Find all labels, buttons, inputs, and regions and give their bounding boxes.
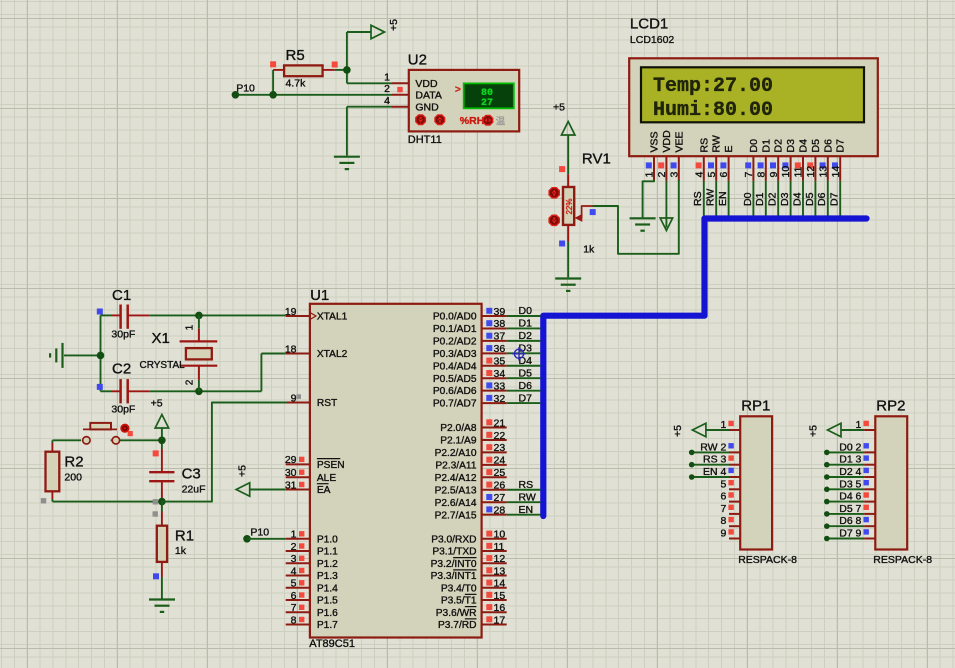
svg-text:19: 19 xyxy=(285,306,297,318)
svg-text:XTAL2: XTAL2 xyxy=(317,349,348,360)
svg-text:D3: D3 xyxy=(779,192,791,206)
svg-text:+5: +5 xyxy=(388,19,400,31)
svg-text:EA: EA xyxy=(317,485,331,496)
svg-text:6: 6 xyxy=(720,491,726,503)
svg-text:12: 12 xyxy=(805,166,817,178)
svg-text:RP1: RP1 xyxy=(741,398,770,415)
svg-text:14: 14 xyxy=(494,578,506,590)
svg-text:32: 32 xyxy=(494,393,506,405)
svg-text:2: 2 xyxy=(384,83,390,95)
svg-text:10: 10 xyxy=(780,166,792,178)
svg-text:29: 29 xyxy=(285,454,297,466)
svg-text:D3: D3 xyxy=(519,343,533,355)
svg-text:21: 21 xyxy=(494,417,506,429)
svg-text:C2: C2 xyxy=(112,361,131,378)
svg-text:11: 11 xyxy=(793,166,805,177)
svg-text:LCD1: LCD1 xyxy=(630,15,668,32)
svg-text:38: 38 xyxy=(494,318,506,330)
svg-text:28: 28 xyxy=(494,504,506,516)
svg-text:33: 33 xyxy=(494,380,506,392)
svg-text:P2.5/A13: P2.5/A13 xyxy=(435,485,477,496)
svg-text:P2.2/A10: P2.2/A10 xyxy=(435,448,477,459)
svg-text:9: 9 xyxy=(291,392,297,404)
svg-text:24: 24 xyxy=(494,455,506,467)
svg-text:+5: +5 xyxy=(553,102,565,114)
svg-text:RP2: RP2 xyxy=(876,398,905,415)
svg-text:P3.7/RD: P3.7/RD xyxy=(438,620,477,631)
svg-text:DHT11: DHT11 xyxy=(408,134,442,146)
svg-text:4: 4 xyxy=(693,172,705,178)
svg-text:P1.1: P1.1 xyxy=(317,547,338,558)
svg-text:D2: D2 xyxy=(767,192,779,206)
svg-text:P1.6: P1.6 xyxy=(317,608,338,619)
svg-text:8: 8 xyxy=(291,614,297,626)
svg-text:D2: D2 xyxy=(773,139,785,153)
svg-text:P3.3/INT1: P3.3/INT1 xyxy=(431,571,477,582)
svg-text:30pF: 30pF xyxy=(111,329,135,341)
svg-text:D7: D7 xyxy=(835,139,847,153)
svg-text:%RH: %RH xyxy=(460,115,485,127)
svg-text:P2.7/A15: P2.7/A15 xyxy=(435,510,477,521)
svg-text:15: 15 xyxy=(494,590,506,602)
svg-text:DATA: DATA xyxy=(415,90,441,102)
svg-text:P1.4: P1.4 xyxy=(317,583,338,594)
svg-text:XTAL1: XTAL1 xyxy=(317,312,348,323)
svg-text:D0: D0 xyxy=(748,139,760,153)
svg-text:P3.5/T1: P3.5/T1 xyxy=(441,596,477,607)
svg-text:X1: X1 xyxy=(152,330,170,347)
svg-text:RS: RS xyxy=(698,138,710,153)
svg-text:37: 37 xyxy=(494,331,506,343)
svg-text:R5: R5 xyxy=(286,47,305,64)
svg-text:RST: RST xyxy=(317,398,337,409)
svg-text:39: 39 xyxy=(494,306,506,318)
svg-text:GND: GND xyxy=(415,102,439,114)
svg-text:EN: EN xyxy=(519,504,534,516)
svg-text:AT89C51: AT89C51 xyxy=(309,638,355,650)
svg-text:22%: 22% xyxy=(565,198,574,214)
svg-text:2: 2 xyxy=(291,541,297,553)
svg-text:P1.7: P1.7 xyxy=(317,620,338,631)
svg-text:4.7k: 4.7k xyxy=(286,78,307,90)
svg-text:7: 7 xyxy=(720,503,726,515)
svg-text:P3.6/WR: P3.6/WR xyxy=(436,608,477,619)
svg-text:P1.0: P1.0 xyxy=(317,534,338,545)
svg-text:5: 5 xyxy=(291,578,297,590)
svg-text:E: E xyxy=(723,145,735,152)
svg-text:RESPACK-8: RESPACK-8 xyxy=(738,554,797,566)
svg-text:D4: D4 xyxy=(519,355,533,367)
svg-text:27: 27 xyxy=(481,98,493,109)
svg-text:200: 200 xyxy=(64,472,82,484)
svg-text:C1: C1 xyxy=(112,287,131,304)
svg-text:26: 26 xyxy=(494,480,506,492)
svg-text:6: 6 xyxy=(718,172,730,178)
svg-text:RW: RW xyxy=(711,135,723,152)
svg-text:P0.3/AD3: P0.3/AD3 xyxy=(433,349,477,360)
svg-text:R1: R1 xyxy=(175,528,194,545)
svg-text:P2.4/A12: P2.4/A12 xyxy=(435,473,477,484)
svg-text:27: 27 xyxy=(494,492,506,504)
svg-text:+5: +5 xyxy=(151,398,163,410)
svg-text:4: 4 xyxy=(384,95,390,107)
svg-text:RESPACK-8: RESPACK-8 xyxy=(873,554,932,566)
svg-text:3: 3 xyxy=(668,172,680,178)
svg-text:22uF: 22uF xyxy=(182,484,206,496)
svg-text:P0.7/AD7: P0.7/AD7 xyxy=(433,399,477,410)
svg-text:36: 36 xyxy=(494,343,506,355)
svg-text:4: 4 xyxy=(291,565,297,577)
svg-text:RW: RW xyxy=(519,491,536,503)
svg-text:P0.4/AD4: P0.4/AD4 xyxy=(433,361,477,372)
svg-text:P10: P10 xyxy=(236,83,255,95)
svg-text:P2.1/A9: P2.1/A9 xyxy=(440,436,477,447)
svg-text:+5: +5 xyxy=(807,425,819,437)
svg-text:1: 1 xyxy=(644,172,656,178)
svg-text:D5: D5 xyxy=(804,192,816,206)
svg-text:2: 2 xyxy=(656,172,668,178)
svg-text:13: 13 xyxy=(817,166,829,178)
svg-text:14: 14 xyxy=(830,166,842,178)
svg-text:VDD: VDD xyxy=(415,78,438,90)
svg-text:P0.6/AD6: P0.6/AD6 xyxy=(433,386,477,397)
svg-text:8: 8 xyxy=(720,515,726,527)
svg-text:D0: D0 xyxy=(742,192,754,206)
svg-text:D7: D7 xyxy=(519,392,533,404)
svg-text:12: 12 xyxy=(494,553,506,565)
svg-text:LCD1602: LCD1602 xyxy=(630,34,675,46)
svg-text:25: 25 xyxy=(494,467,506,479)
svg-text:P0.1/AD1: P0.1/AD1 xyxy=(433,324,477,335)
svg-text:温: 温 xyxy=(496,117,506,128)
svg-text:U2: U2 xyxy=(408,52,427,69)
svg-text:P2.6/A14: P2.6/A14 xyxy=(435,498,477,509)
svg-text:VEE: VEE xyxy=(673,131,685,152)
svg-text:P2.3/A11: P2.3/A11 xyxy=(435,460,476,471)
svg-text:5: 5 xyxy=(720,478,726,490)
svg-text:1: 1 xyxy=(185,324,196,330)
svg-text:D4: D4 xyxy=(798,139,810,153)
svg-text:35: 35 xyxy=(494,356,506,368)
svg-text:D0: D0 xyxy=(519,305,533,317)
svg-text:P3.4/T0: P3.4/T0 xyxy=(441,583,477,594)
svg-text:C3: C3 xyxy=(182,466,201,483)
svg-text:EN: EN xyxy=(717,191,729,206)
svg-text:D1: D1 xyxy=(519,318,533,330)
svg-text:RW: RW xyxy=(705,189,717,206)
svg-text:P2.0/A8: P2.0/A8 xyxy=(440,423,477,434)
svg-text:D4: D4 xyxy=(791,192,803,206)
svg-text:3: 3 xyxy=(291,553,297,565)
svg-text:VSS: VSS xyxy=(649,131,661,152)
svg-text:P1.5: P1.5 xyxy=(317,596,338,607)
svg-text:P0.2/AD2: P0.2/AD2 xyxy=(433,336,477,347)
svg-text:P0.0/AD0: P0.0/AD0 xyxy=(433,312,477,323)
svg-text:VDD: VDD xyxy=(661,130,673,153)
svg-text:Humi:80.00: Humi:80.00 xyxy=(653,99,773,122)
svg-text:P0.5/AD5: P0.5/AD5 xyxy=(433,374,477,385)
svg-text:+5: +5 xyxy=(237,465,249,477)
svg-text:ALE: ALE xyxy=(317,473,336,484)
svg-text:1: 1 xyxy=(291,529,297,541)
svg-text:22: 22 xyxy=(494,430,506,442)
svg-text:P10: P10 xyxy=(250,527,269,539)
svg-text:1k: 1k xyxy=(583,244,595,256)
svg-text:P3.0/RXD: P3.0/RXD xyxy=(431,534,476,545)
svg-text:17: 17 xyxy=(494,614,506,626)
svg-text:9: 9 xyxy=(768,172,780,178)
svg-text:31: 31 xyxy=(285,479,297,491)
svg-text:P3.1/TXD: P3.1/TXD xyxy=(432,547,476,558)
svg-text:CRYSTAL: CRYSTAL xyxy=(140,360,186,371)
svg-text:U1: U1 xyxy=(310,287,329,304)
svg-text:D7: D7 xyxy=(829,192,841,206)
svg-text:16: 16 xyxy=(494,602,506,614)
svg-text:D1: D1 xyxy=(754,192,766,206)
svg-text:6: 6 xyxy=(291,590,297,602)
svg-text:7: 7 xyxy=(291,602,297,614)
svg-text:R2: R2 xyxy=(64,454,83,471)
svg-text:+5: +5 xyxy=(672,425,684,437)
svg-text:30pF: 30pF xyxy=(111,404,135,416)
svg-text:30: 30 xyxy=(285,467,297,479)
svg-text:RS: RS xyxy=(519,479,534,491)
svg-text:P3.2/INT0: P3.2/INT0 xyxy=(431,559,477,570)
svg-text:D5: D5 xyxy=(519,367,533,379)
svg-text:11: 11 xyxy=(494,541,505,553)
svg-text:5: 5 xyxy=(706,172,718,178)
svg-text:13: 13 xyxy=(494,565,506,577)
svg-text:D6: D6 xyxy=(822,139,834,153)
svg-text:D2: D2 xyxy=(519,330,533,342)
svg-text:D6: D6 xyxy=(519,380,533,392)
svg-text:34: 34 xyxy=(494,368,506,380)
svg-text:2: 2 xyxy=(185,379,196,385)
svg-text:7: 7 xyxy=(743,172,755,178)
svg-text:1: 1 xyxy=(384,72,390,84)
svg-text:18: 18 xyxy=(285,343,297,355)
svg-text:9: 9 xyxy=(720,528,726,540)
svg-text:D6: D6 xyxy=(816,192,828,206)
svg-text:Temp:27.00: Temp:27.00 xyxy=(653,75,773,98)
svg-text:10: 10 xyxy=(494,529,506,541)
svg-text:P1.2: P1.2 xyxy=(317,559,338,570)
svg-text:RV1: RV1 xyxy=(582,151,611,168)
svg-text:23: 23 xyxy=(494,442,506,454)
svg-text:RS: RS xyxy=(692,191,704,206)
svg-text:D5: D5 xyxy=(810,139,822,153)
svg-text:1k: 1k xyxy=(175,545,187,557)
svg-text:D3: D3 xyxy=(785,139,797,153)
svg-text:PSEN: PSEN xyxy=(317,460,345,471)
svg-text:8: 8 xyxy=(755,172,767,178)
svg-text:D1: D1 xyxy=(760,139,772,153)
svg-text:>: > xyxy=(455,85,461,96)
svg-text:P1.3: P1.3 xyxy=(317,571,338,582)
